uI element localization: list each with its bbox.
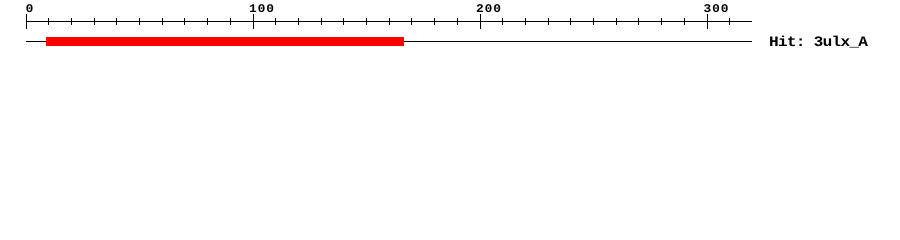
svg-text:Hit: 3ulx_A: Hit: 3ulx_A xyxy=(769,35,868,51)
svg-text:100: 100 xyxy=(249,2,274,16)
svg-text:300: 300 xyxy=(704,2,729,16)
svg-text:0: 0 xyxy=(26,2,34,16)
svg-text:200: 200 xyxy=(476,2,501,16)
